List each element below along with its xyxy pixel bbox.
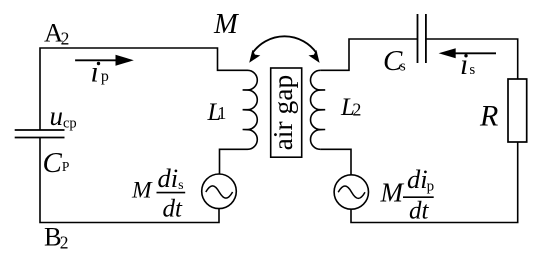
svg-text:R: R [479, 99, 498, 132]
svg-text:dt: dt [409, 198, 430, 225]
svg-text:air gap: air gap [267, 75, 298, 151]
svg-text:M: M [131, 177, 153, 203]
svg-text:M: M [213, 9, 240, 40]
svg-text:dt: dt [163, 195, 184, 222]
svg-text:M: M [380, 178, 405, 208]
svg-text:L1: L1 [207, 99, 227, 126]
